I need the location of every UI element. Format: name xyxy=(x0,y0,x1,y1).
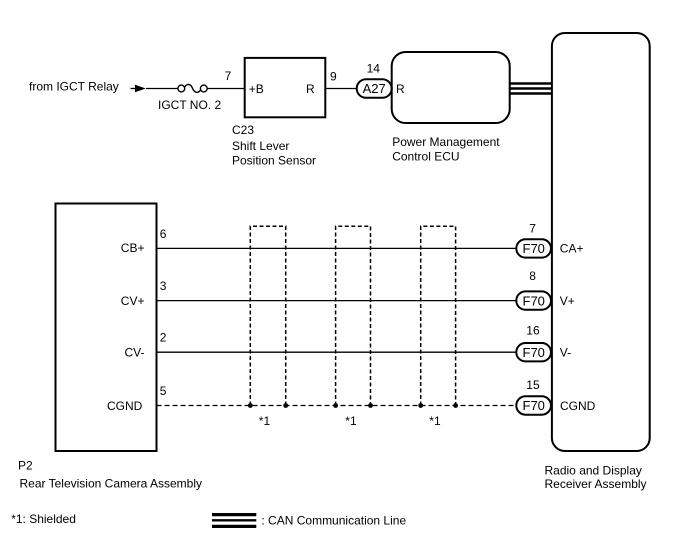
svg-text:V-: V- xyxy=(560,346,571,360)
svg-text:A27: A27 xyxy=(363,81,386,96)
svg-text:F70: F70 xyxy=(523,241,545,256)
svg-text:Rear Television Camera Assembl: Rear Television Camera Assembly xyxy=(20,477,203,491)
svg-text:15: 15 xyxy=(526,378,540,392)
svg-text:Power Management: Power Management xyxy=(392,135,500,149)
connector F70 pin 16 xyxy=(516,343,551,361)
svg-text:2: 2 xyxy=(160,331,167,345)
svg-text:F70: F70 xyxy=(523,293,545,308)
svg-text:9: 9 xyxy=(330,70,337,84)
wire xyxy=(207,88,245,90)
Rear Television Camera Assembly box P2 xyxy=(56,204,157,452)
svg-text:IGCT NO. 2: IGCT NO. 2 xyxy=(158,98,221,112)
connector F70 pin 15 xyxy=(516,396,551,414)
CAN communication line legend symbol xyxy=(212,515,256,527)
svg-text:*1: *1 xyxy=(259,414,271,428)
svg-text:CGND: CGND xyxy=(560,399,596,413)
CAN bus lines xyxy=(510,84,552,94)
svg-text:F70: F70 xyxy=(523,345,545,360)
svg-text:Shift Lever: Shift Lever xyxy=(232,139,289,153)
svg-text:CB+: CB+ xyxy=(121,241,145,255)
svg-text:6: 6 xyxy=(160,227,167,241)
svg-text:+B: +B xyxy=(249,82,264,96)
svg-text:Radio and Display: Radio and Display xyxy=(545,464,642,478)
connector F70 pin 7 xyxy=(516,239,551,257)
svg-text:P2: P2 xyxy=(18,458,33,472)
ECU box Power Management Control ECU xyxy=(392,52,510,123)
svg-text:Position Sensor: Position Sensor xyxy=(232,154,316,168)
junction dots on CGND xyxy=(248,403,458,408)
svg-text:CV-: CV- xyxy=(125,346,145,360)
svg-text:7: 7 xyxy=(225,69,232,83)
svg-text:CA+: CA+ xyxy=(560,242,584,256)
label C23 Shift Lever Position Sensor xyxy=(232,123,316,168)
connector F70 pin 8 xyxy=(516,291,551,309)
connector C23 box xyxy=(245,58,326,117)
wire xyxy=(325,88,356,90)
label P2 Rear Television Camera Assembly xyxy=(18,458,202,490)
svg-text:*1: *1 xyxy=(429,414,441,428)
svg-text:R: R xyxy=(396,82,405,96)
connector A27 xyxy=(357,79,392,98)
label Power Management Control ECU xyxy=(392,135,500,164)
svg-text:from IGCT Relay: from IGCT Relay xyxy=(29,80,119,94)
svg-text:3: 3 xyxy=(160,279,167,293)
svg-text:CGND: CGND xyxy=(107,399,143,413)
wire xyxy=(131,85,179,92)
label Radio and Display Receiver Assembly xyxy=(545,464,647,491)
wire CGND dashed xyxy=(157,405,517,407)
fuse IGCT NO. 2 xyxy=(158,84,221,111)
svg-text:V+: V+ xyxy=(560,294,575,308)
svg-text:Control ECU: Control ECU xyxy=(392,150,459,164)
wire CB+ xyxy=(157,247,517,249)
svg-text:16: 16 xyxy=(526,324,540,338)
svg-text:Receiver Assembly: Receiver Assembly xyxy=(545,477,647,491)
svg-text:: CAN Communication Line: : CAN Communication Line xyxy=(261,513,406,527)
svg-text:F70: F70 xyxy=(523,398,545,413)
svg-text:*1: Shielded: *1: Shielded xyxy=(11,512,76,526)
wire CV+ xyxy=(157,300,517,302)
svg-text:R: R xyxy=(306,82,315,96)
svg-text:*1: *1 xyxy=(345,414,357,428)
svg-text:5: 5 xyxy=(160,384,167,398)
Radio and Display Receiver Assembly box xyxy=(552,33,650,451)
shield box 2 dashed xyxy=(336,226,371,405)
shield box 1 dashed xyxy=(250,226,285,405)
svg-text:8: 8 xyxy=(529,269,536,283)
svg-text:CV+: CV+ xyxy=(121,294,145,308)
svg-text:C23: C23 xyxy=(232,123,254,137)
svg-text:7: 7 xyxy=(529,221,536,235)
wire CV- xyxy=(157,351,517,353)
svg-text:14: 14 xyxy=(367,62,381,76)
shield box 3 dashed xyxy=(421,226,456,405)
